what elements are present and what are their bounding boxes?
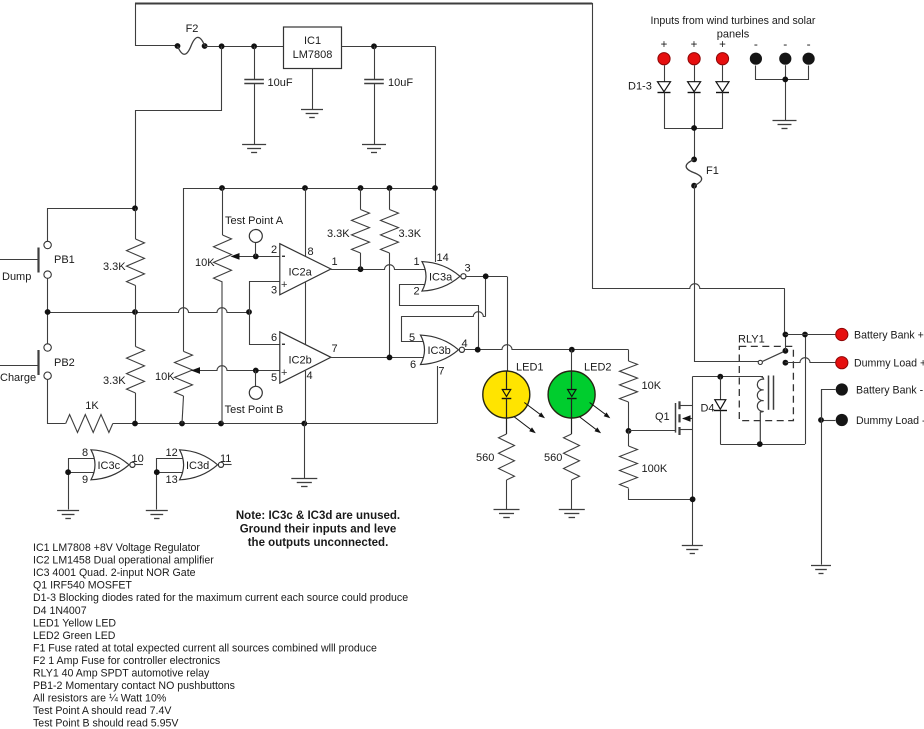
relay RLY1 box	[738, 334, 793, 421]
wire Q1 common vertical	[692, 377, 694, 546]
wire coil-bottom up to battery plus	[805, 335, 807, 445]
diode D1	[658, 65, 671, 92]
node gnd rail R2	[132, 421, 138, 427]
node PB1 rail	[132, 205, 138, 211]
svg-text:+: +	[661, 39, 668, 51]
node IC3a out	[483, 273, 489, 279]
resistor R7 560	[544, 434, 580, 510]
nor-gate IC3c	[82, 447, 144, 486]
svg-text:10uF: 10uF	[268, 77, 293, 89]
node mid rail left	[45, 309, 51, 315]
svg-text:F1 Fuse rated at total expecte: F1 Fuse rated at total expected current …	[33, 642, 377, 654]
svg-text:IC3b: IC3b	[428, 345, 451, 357]
node mid rail R2	[132, 309, 138, 315]
terminal source3 -	[803, 37, 815, 65]
svg-text:IC3a: IC3a	[429, 272, 453, 284]
svg-text:PB1-2 Momentary contact NO pus: PB1-2 Momentary contact NO pushbuttons	[33, 680, 235, 692]
svg-text:-: -	[282, 337, 286, 351]
relay common contact	[758, 360, 762, 364]
svg-text:10: 10	[132, 453, 144, 465]
nor-gate IC3b	[409, 332, 468, 371]
pushbutton PB2	[0, 344, 75, 380]
resistor R5 1K	[66, 400, 113, 433]
svg-text:8: 8	[308, 246, 314, 258]
wire IC2a output	[331, 265, 429, 270]
svg-text:Inputs from wind turbines and: Inputs from wind turbines and solar	[651, 15, 816, 27]
svg-text:All resistors are ¼ Watt 10%: All resistors are ¼ Watt 10%	[33, 693, 167, 705]
node input junction	[219, 43, 225, 49]
node IC3b out feedback	[475, 347, 481, 353]
wire branch down-left jog to PB column	[136, 47, 222, 209]
wire IC2 ground drop	[304, 424, 306, 479]
wire ground rail	[113, 423, 437, 425]
terminal source1 -	[750, 37, 762, 65]
ground Q1 source	[682, 546, 703, 554]
wire coil bottom rail	[720, 444, 805, 446]
node bat plus tap	[802, 332, 808, 338]
wire IC2b output	[331, 357, 428, 359]
op-amp IC2b	[280, 332, 338, 383]
svg-text:560: 560	[544, 452, 562, 464]
svg-text:Dummy Load +: Dummy Load +	[854, 358, 924, 370]
svg-text:D4: D4	[700, 403, 714, 415]
fuse F1	[686, 157, 719, 189]
node gnd rail IC2 pin4	[301, 421, 307, 427]
wire P1 wiper to IC2a pin2	[231, 244, 280, 260]
svg-text:Q1 IRF540 MOSFET: Q1 IRF540 MOSFET	[33, 580, 132, 592]
test point B	[225, 371, 284, 417]
wire IC2 power pin8	[305, 188, 307, 256]
terminal source1 +	[658, 39, 670, 65]
svg-text:-: -	[282, 249, 286, 263]
svg-text:IC2 LM1458 Dual operational am: IC2 LM1458 Dual operational amplifier	[33, 555, 214, 567]
svg-text:9: 9	[82, 474, 88, 486]
node C2 junction	[371, 43, 377, 49]
svg-text:PB1: PB1	[54, 254, 75, 266]
ground output negative	[811, 566, 831, 574]
node IC3c input tie	[65, 469, 71, 475]
wire PB1 top to node	[48, 209, 136, 242]
svg-text:-: -	[807, 37, 811, 51]
wire IC2a pin3 / IC2b pin6 to mid rail	[250, 282, 280, 345]
svg-text:+: +	[719, 39, 726, 51]
svg-text:3: 3	[271, 285, 277, 297]
svg-text:IC3 4001 Quad. 2-input NOR Gat: IC3 4001 Quad. 2-input NOR Gate	[33, 567, 196, 579]
svg-text:5: 5	[409, 332, 415, 344]
wire IC3b pin7 to ground rail	[438, 366, 445, 424]
wire left drop from top rail	[135, 3, 137, 46]
node Q1 source / 100K	[690, 496, 696, 502]
svg-text:13: 13	[166, 474, 178, 486]
resistor R6 560	[476, 434, 515, 510]
svg-text:Q1: Q1	[655, 411, 670, 423]
diode D3	[716, 65, 729, 92]
ground IC3c	[57, 511, 79, 519]
node battery plus	[783, 332, 789, 338]
node IC2b out R4	[387, 355, 393, 361]
node gnd rail pot1	[218, 421, 224, 427]
terminal Dummy Load -	[821, 414, 924, 427]
wire F1 down to relay common	[695, 186, 759, 362]
svg-text:+: +	[691, 39, 698, 51]
svg-text:Charge: Charge	[0, 372, 36, 384]
ground under IC1	[301, 110, 323, 118]
svg-text:7: 7	[332, 343, 338, 355]
node IC3d input tie	[154, 469, 160, 475]
svg-text:Battery Bank -: Battery Bank -	[856, 385, 924, 397]
svg-text:LM7808: LM7808	[293, 49, 333, 61]
svg-text:2: 2	[414, 286, 420, 298]
wire IC3a-out corner down to LED1	[507, 277, 509, 372]
wire top rail from F2 branch to sources branch	[135, 3, 592, 5]
svg-text:LED2 Green LED: LED2 Green LED	[33, 630, 116, 642]
svg-text:10K: 10K	[155, 371, 175, 383]
svg-text:1K: 1K	[85, 400, 99, 412]
node negative bus junction	[782, 77, 788, 83]
svg-text:Dump: Dump	[2, 271, 31, 283]
relay contact NC	[783, 360, 789, 366]
node rail-pot1	[219, 185, 225, 191]
svg-text:RLY1 40 Amp SPDT automotive re: RLY1 40 Amp SPDT automotive relay	[33, 668, 210, 680]
svg-text:LED1 Yellow LED: LED1 Yellow LED	[33, 617, 116, 629]
ground under C1	[242, 145, 266, 153]
terminal Battery Bank +	[785, 328, 923, 341]
svg-text:3.3K: 3.3K	[103, 375, 126, 387]
svg-text:Battery Bank +: Battery Bank +	[854, 330, 924, 342]
ground IC2 pin4	[291, 479, 317, 487]
wire coil top lead	[693, 376, 764, 378]
node LED2 junction	[569, 347, 575, 353]
svg-text:3.3K: 3.3K	[327, 228, 350, 240]
capacitor C2 10uF	[364, 46, 413, 144]
svg-text:F2: F2	[186, 23, 199, 35]
label Dump	[2, 271, 31, 283]
node rail-pin14	[432, 185, 438, 191]
label Charge	[0, 372, 36, 384]
svg-text:RLY1: RLY1	[738, 334, 765, 346]
svg-text:+: +	[281, 367, 287, 379]
node TPB junction	[253, 368, 259, 374]
svg-text:3.3K: 3.3K	[103, 261, 126, 273]
node rail-R4	[387, 185, 393, 191]
svg-text:-: -	[754, 37, 758, 51]
terminal Battery Bank -	[822, 383, 924, 420]
resistor R1 3.3K upper	[103, 208, 145, 312]
wire +8V rail	[184, 188, 436, 190]
wire unregulated feed to relay	[592, 3, 785, 335]
svg-text:IC3d: IC3d	[186, 460, 209, 472]
label pin 14	[437, 252, 449, 264]
svg-text:1: 1	[332, 256, 338, 268]
wire negative bus	[756, 65, 809, 120]
transistor Q1 IRF540	[655, 401, 693, 435]
node negative tie	[818, 417, 824, 423]
svg-text:Test Point A: Test Point A	[225, 215, 284, 227]
svg-text:12: 12	[166, 447, 178, 459]
label inputs heading	[651, 15, 816, 41]
wire IC3d inputs tied	[157, 459, 186, 510]
svg-text:8: 8	[82, 447, 88, 459]
svg-text:3.3K: 3.3K	[399, 228, 422, 240]
svg-text:Test Point A should read 7.4V: Test Point A should read 7.4V	[33, 705, 172, 717]
node mid rail opamp	[246, 309, 252, 315]
resistor R2 3.3K lower	[103, 312, 145, 424]
relay switch arm	[763, 351, 786, 362]
svg-text:Ground their inputs and leve: Ground their inputs and leve	[240, 524, 397, 536]
svg-text:D1-3 Blocking diodes rated for: D1-3 Blocking diodes rated for the maxim…	[33, 592, 408, 604]
wire IC3b output	[464, 345, 629, 350]
node C1 junction	[251, 43, 257, 49]
node rail-R3	[358, 185, 364, 191]
wire into fuse F2	[135, 45, 178, 47]
svg-text:IC2b: IC2b	[289, 355, 312, 367]
ground LED2	[559, 510, 585, 518]
relay core	[769, 376, 774, 410]
svg-text:560: 560	[476, 452, 494, 464]
svg-text:D1-3: D1-3	[628, 81, 652, 93]
LED2 green	[548, 362, 611, 435]
svg-text:14: 14	[437, 252, 449, 264]
wire mid rail	[48, 308, 249, 313]
svg-text:10K: 10K	[195, 257, 215, 269]
wire F2 to IC1 input	[205, 46, 284, 48]
node rail-IC2 pin8	[302, 185, 308, 191]
op-amp IC2a	[271, 244, 338, 297]
svg-text:Dummy Load -: Dummy Load -	[856, 415, 924, 427]
nor-gate IC3a	[414, 256, 471, 298]
wire diode output bus	[665, 93, 723, 160]
svg-text:4: 4	[307, 370, 313, 382]
resistor R8 10K gate	[620, 350, 662, 431]
resistor R9 100K	[620, 431, 693, 500]
svg-text:LED2: LED2	[584, 362, 612, 374]
wire feedback IC3b-out to IC3a pin2	[400, 285, 479, 350]
potentiometer P2 10K	[155, 188, 193, 424]
node Q1 gate	[626, 428, 632, 434]
svg-text:F1: F1	[706, 165, 719, 177]
svg-text:IC2a: IC2a	[289, 267, 313, 279]
wire IC2 pin4 segment	[305, 371, 307, 424]
svg-text:IC1 LM7808 +8V Voltage Regulat: IC1 LM7808 +8V Voltage Regulator	[33, 542, 200, 554]
wire P2 wiper to IC2b pin5	[191, 366, 280, 384]
svg-text:PB2: PB2	[54, 357, 75, 369]
wire NO contact to battery node	[785, 335, 787, 351]
node TPA junction	[253, 254, 259, 260]
svg-text:LED1: LED1	[516, 362, 544, 374]
terminal source2 -	[779, 37, 791, 65]
svg-text:6: 6	[410, 359, 416, 371]
pushbutton PB1	[0, 241, 75, 278]
svg-text:5: 5	[271, 372, 277, 384]
svg-text:Test Point B should read 5.95V: Test Point B should read 5.95V	[33, 718, 179, 729]
svg-text:2: 2	[271, 244, 277, 256]
resistor R4 3.3K	[381, 188, 422, 357]
fuse F2	[175, 23, 208, 54]
ground under C2	[362, 145, 386, 153]
svg-text:Test Point B: Test Point B	[225, 404, 284, 416]
wire IC3b-out down to LED2	[571, 350, 573, 371]
terminal source3 +	[716, 39, 728, 65]
svg-text:Note: IC3c & IC3d are unused.: Note: IC3c & IC3d are unused.	[236, 510, 400, 522]
svg-text:F2 1 Amp Fuse for controller e: F2 1 Amp Fuse for controller electronics	[33, 655, 220, 667]
node IC2a out R3	[358, 266, 364, 272]
wire IC3a output	[466, 276, 507, 278]
svg-text:4: 4	[462, 338, 468, 350]
relay coil	[757, 377, 763, 445]
regulator IC1 LM7808	[284, 27, 342, 69]
resistor R3 3.3K	[327, 188, 370, 269]
svg-text:3: 3	[465, 263, 471, 275]
ground negative bus	[773, 121, 797, 129]
LED1 yellow	[483, 362, 545, 435]
wire PB1 bottom to mid rail	[47, 278, 49, 312]
parts list	[33, 542, 408, 729]
svg-text:the outputs unconnected.: the outputs unconnected.	[248, 537, 389, 549]
wire +8V drop to rail and IC3a pin14	[435, 46, 437, 262]
svg-text:IC3c: IC3c	[98, 460, 121, 472]
test point A	[225, 215, 284, 256]
diode D2	[688, 65, 701, 92]
svg-text:+: +	[281, 279, 287, 291]
nor-gate IC3d	[166, 447, 232, 486]
svg-text:-: -	[783, 37, 787, 51]
wire negative tie to ground	[821, 390, 823, 565]
wire Q1 gate lead	[629, 430, 676, 432]
svg-text:6: 6	[271, 332, 277, 344]
wire IC2 mid segment	[305, 282, 307, 344]
node diode bus junction	[691, 125, 697, 131]
wire mid rail to PB2 top	[47, 312, 49, 344]
svg-text:IC1: IC1	[304, 35, 321, 47]
node D4 top	[717, 374, 723, 380]
svg-text:10uF: 10uF	[388, 77, 413, 89]
svg-text:D4 1N4007: D4 1N4007	[33, 605, 87, 617]
svg-text:11: 11	[220, 453, 231, 465]
svg-text:1: 1	[414, 256, 420, 268]
node coil bottom	[757, 441, 763, 447]
diode D4	[700, 377, 727, 444]
potentiometer P1 10K	[195, 188, 232, 424]
ground LED1	[494, 510, 520, 518]
terminal source2 +	[688, 39, 700, 65]
svg-text:7: 7	[438, 366, 444, 378]
note about unused gates	[236, 510, 400, 549]
relay contact NO	[783, 348, 789, 354]
wire PB2 bottom to ground rail	[48, 380, 66, 424]
ground IC3d	[146, 511, 168, 519]
node gnd rail pot2	[179, 421, 185, 427]
wire IC1 pin3 ground lead	[312, 69, 314, 110]
svg-text:10K: 10K	[642, 380, 662, 392]
wire IC1 output	[342, 46, 436, 48]
wire IC3c inputs tied	[68, 459, 97, 510]
wire feedback IC3a-out to IC3b pin5	[401, 276, 486, 341]
terminal Dummy Load +	[785, 357, 924, 370]
capacitor C1 10uF	[244, 46, 293, 144]
svg-text:100K: 100K	[642, 463, 668, 475]
label D1-3	[628, 81, 652, 93]
